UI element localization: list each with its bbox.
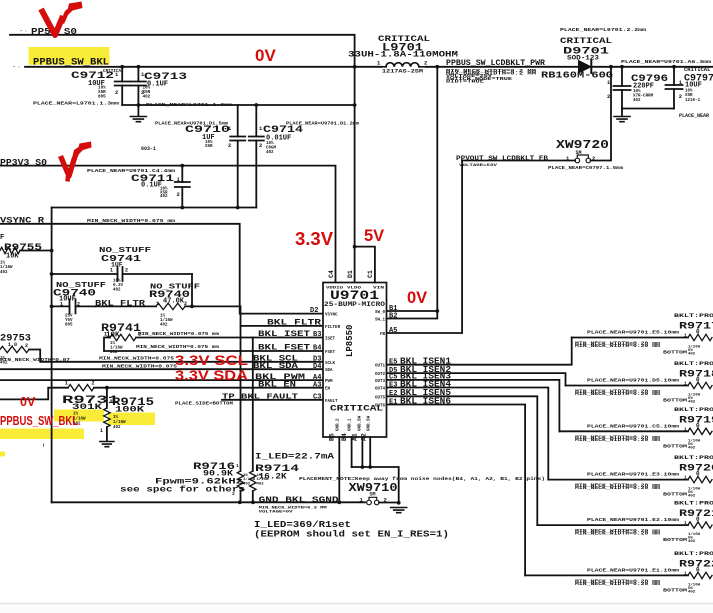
svg-text:402: 402 xyxy=(688,353,696,357)
svg-text:402: 402 xyxy=(257,482,265,486)
svg-text:B4: B4 xyxy=(313,345,321,353)
wire BKL_ISEN4 xyxy=(387,388,549,480)
svg-text:MIN_NECK_WIDTH=0.20 mm: MIN_NECK_WIDTH=0.20 mm xyxy=(575,486,661,491)
svg-text:PLACE_SIDE=BOTTOM: PLACE_SIDE=BOTTOM xyxy=(175,402,234,407)
wire BKL_ISEN5 xyxy=(387,396,538,525)
ground at XW9710 xyxy=(391,508,407,513)
svg-text:1: 1 xyxy=(684,333,687,339)
svg-text:10%: 10% xyxy=(633,90,641,94)
svg-text:RB160M-60G: RB160M-60G xyxy=(541,71,613,81)
svg-text:BKLT:PRO: BKLT:PRO xyxy=(674,455,713,461)
svg-text:402: 402 xyxy=(0,271,8,275)
svg-text:X7R-CRRM: X7R-CRRM xyxy=(633,95,654,99)
svg-text:402: 402 xyxy=(160,195,168,199)
svg-text:PLACE_NEAR=U9701.E1.10mm: PLACE_NEAR=U9701.E1.10mm xyxy=(587,568,680,573)
svg-text:1210-1: 1210-1 xyxy=(685,99,701,103)
svg-text:X5R: X5R xyxy=(205,145,213,149)
svg-text:10%: 10% xyxy=(685,90,693,94)
resistor R9719 xyxy=(559,407,713,451)
node PPVOUT_SW_LCDBKLT_FB xyxy=(456,155,548,168)
svg-text:SOD-123: SOD-123 xyxy=(567,55,599,62)
svg-text:10%: 10% xyxy=(113,280,121,284)
svg-text:BKL_SDA: BKL_SDA xyxy=(253,361,299,371)
decor bottom edge xyxy=(0,604,713,613)
svg-text:GND_SW: GND_SW xyxy=(368,415,372,431)
svg-text:2: 2 xyxy=(424,60,427,67)
wire BKL_ISEN3 xyxy=(387,380,560,431)
annotation checkmark over PP5V_S0 xyxy=(41,2,83,36)
svg-text:1/16W: 1/16W xyxy=(113,420,126,425)
svg-text:CRITICAL: CRITICAL xyxy=(684,66,711,73)
svg-text:CRITICAL: CRITICAL xyxy=(560,37,612,46)
svg-text:BKLT:PRO: BKLT:PRO xyxy=(674,551,713,557)
svg-text:402: 402 xyxy=(688,540,696,544)
wire left bus vertical xyxy=(51,208,53,503)
capacitor C9710 xyxy=(141,105,245,208)
svg-text:PPBUS_SW_BKL: PPBUS_SW_BKL xyxy=(0,414,78,428)
diode D9701 RB160M-60G xyxy=(541,28,647,81)
svg-text:(EEPROM should set EN_I_RES=1): (EEPROM should set EN_I_RES=1) xyxy=(254,530,449,540)
svg-text:402: 402 xyxy=(633,99,641,103)
svg-text:BKLT:PRO: BKLT:PRO xyxy=(674,407,713,413)
wire C9741 to FLTR junction xyxy=(191,274,193,306)
svg-text:BKLT:PRO: BKLT:PRO xyxy=(674,361,713,367)
svg-text:PLACE_NEAR=L9701.1.3mm: PLACE_NEAR=L9701.1.3mm xyxy=(33,102,120,107)
svg-text:PLACE_NEAR=U9701.C5.10mm: PLACE_NEAR=U9701.C5.10mm xyxy=(587,424,680,429)
wire BKL_ISEN1 xyxy=(387,338,572,365)
svg-text:BOTTOM: BOTTOM xyxy=(663,398,687,404)
svg-text:OUT3: OUT3 xyxy=(375,380,386,384)
svg-text:see spec for others: see spec for others xyxy=(120,485,245,495)
svg-text:2: 2 xyxy=(177,191,180,198)
svg-text:25V: 25V xyxy=(65,315,73,319)
svg-text:3.3V SDA: 3.3V SDA xyxy=(175,368,248,383)
svg-text:MIN_NECK_WIDTH=0.20 mm: MIN_NECK_WIDTH=0.20 mm xyxy=(575,392,661,397)
svg-text:805: 805 xyxy=(98,94,106,99)
svg-text:PLACE_NEAR=U9701.E5.10mm: PLACE_NEAR=U9701.E5.10mm xyxy=(587,331,680,336)
svg-text:1217AS-2SM: 1217AS-2SM xyxy=(382,69,423,75)
svg-text:I_LED=369/R1set: I_LED=369/R1set xyxy=(254,520,351,530)
svg-text:MIN_NECK_WIDTH=0.20 mm: MIN_NECK_WIDTH=0.20 mm xyxy=(575,344,661,349)
wire GND pins B4 A1 A2 bus xyxy=(351,437,353,467)
svg-text:PLACEMENT_NOTE=Keep away from: PLACEMENT_NOTE=Keep away from noise node… xyxy=(299,476,545,482)
svg-text:MIN_NECK_WIDTH=0.075 mm: MIN_NECK_WIDTH=0.075 mm xyxy=(138,332,220,337)
svg-text:X5R: X5R xyxy=(685,94,693,98)
svg-text:0.1UF: 0.1UF xyxy=(141,182,162,190)
svg-text:A5: A5 xyxy=(389,327,397,335)
svg-text:1: 1 xyxy=(684,520,687,526)
svg-text:BKL_FSET: BKL_FSET xyxy=(258,343,310,353)
svg-text:BOTTOM: BOTTOM xyxy=(663,350,687,356)
node PP5V_S0 xyxy=(20,26,77,37)
highlight over R9731 tolerance values xyxy=(54,410,104,422)
wire mid rail y207 xyxy=(52,207,257,209)
svg-text:PLACE_NEAR=U9701.E2.10mm: PLACE_NEAR=U9701.E2.10mm xyxy=(587,518,680,523)
svg-text:47.0K: 47.0K xyxy=(163,298,185,306)
capacitor C9713 xyxy=(131,67,233,108)
svg-text:402: 402 xyxy=(243,482,251,486)
capacitor C9712 xyxy=(33,67,130,107)
svg-text:0V: 0V xyxy=(255,46,276,65)
svg-text:FAULT: FAULT xyxy=(325,400,338,404)
svg-text:VOLTAGE=50V: VOLTAGE=50V xyxy=(459,164,498,168)
svg-text:1: 1 xyxy=(100,428,103,434)
capacitor C9797 xyxy=(666,66,713,119)
svg-text:1: 1 xyxy=(684,570,687,576)
resistor R9731 xyxy=(0,381,323,427)
svg-text:SW_1: SW_1 xyxy=(375,319,386,323)
svg-text:1: 1 xyxy=(684,475,687,481)
svg-text:FSET: FSET xyxy=(325,351,336,355)
svg-text:GND_2: GND_2 xyxy=(337,418,341,431)
svg-text:VSYNC: VSYNC xyxy=(325,314,338,318)
svg-text:2: 2 xyxy=(25,343,28,349)
jumper XW9720 xyxy=(548,138,624,171)
wire FB vertical to chip A5 xyxy=(387,161,463,334)
resistor R9717 xyxy=(572,313,713,357)
wire PP3V3_S0 to chip C4 VDDIO xyxy=(0,166,336,283)
capacitor C9714 xyxy=(249,105,360,208)
svg-text:2: 2 xyxy=(679,93,682,100)
ground under C9713 xyxy=(137,105,139,116)
svg-text:B3: B3 xyxy=(313,331,321,339)
wire FLTR drop to FILTER pin and R9716 xyxy=(240,306,242,471)
svg-text:2: 2 xyxy=(607,93,610,100)
wire SW pins to SW node xyxy=(387,310,438,312)
highlight over PPBUS_SW_BKL net label xyxy=(29,47,110,65)
svg-text:10K: 10K xyxy=(6,253,19,261)
capacitor C9796 xyxy=(607,60,712,109)
svg-text:OUT4: OUT4 xyxy=(375,388,386,392)
svg-text:GND_SW: GND_SW xyxy=(359,415,363,431)
svg-text:OUT1: OUT1 xyxy=(375,365,386,369)
svg-text:DIDT=TRUE: DIDT=TRUE xyxy=(446,78,484,84)
wire PPBUS_SW_BKL feed to inductor xyxy=(25,66,382,68)
svg-text:1: 1 xyxy=(110,268,113,274)
svg-text:402: 402 xyxy=(688,401,696,405)
svg-text:PLACE_NEAR=U9701.D5.10mm: PLACE_NEAR=U9701.D5.10mm xyxy=(587,379,680,384)
svg-text:I_LED=22.7mA: I_LED=22.7mA xyxy=(255,453,334,462)
svg-text:!: ! xyxy=(42,443,45,449)
svg-text:1%: 1% xyxy=(160,315,166,319)
resistor R9721 xyxy=(537,501,713,544)
svg-text:LP8550: LP8550 xyxy=(345,325,355,357)
resistor R9714 xyxy=(243,338,334,503)
resistor R9740 NO_STUFF xyxy=(95,284,241,328)
svg-text:2: 2 xyxy=(592,155,595,162)
wire VIN jog C1 xyxy=(355,247,375,283)
jumper XW9710 xyxy=(349,481,399,505)
small yellow tick left edge xyxy=(0,452,5,457)
svg-text:MIN_NECK_WIDTH=0.075: MIN_NECK_WIDTH=0.075 xyxy=(102,365,178,370)
svg-text:2: 2 xyxy=(141,89,144,96)
svg-text:BOTTOM: BOTTOM xyxy=(663,492,687,498)
wire PP5V_S0 to D1 VLDO vertical xyxy=(10,35,355,283)
svg-text:PLACE_NEAR=C9797.1.5mm: PLACE_NEAR=C9797.1.5mm xyxy=(548,166,624,171)
svg-text:FILTER: FILTER xyxy=(325,326,341,330)
svg-text:B4: B4 xyxy=(341,433,348,441)
annotation checkmark over PP3V3_S0 xyxy=(61,142,92,182)
svg-text:D2: D2 xyxy=(310,307,318,315)
svg-text:PPVOUT_SW_LCDBKLT_FB: PPVOUT_SW_LCDBKLT_FB xyxy=(456,155,548,163)
svg-text:2: 2 xyxy=(125,268,128,274)
wire PWM row xyxy=(0,379,323,381)
svg-text:BOTTOM: BOTTOM xyxy=(663,587,687,593)
svg-text:402: 402 xyxy=(688,590,696,594)
svg-text:D4: D4 xyxy=(313,363,321,371)
resistor R9755 xyxy=(0,243,52,275)
svg-text:0V: 0V xyxy=(20,395,36,409)
svg-text:1%: 1% xyxy=(0,262,6,266)
svg-text:B5: B5 xyxy=(329,433,336,441)
svg-text:402: 402 xyxy=(113,289,121,293)
svg-text:BOTTOM: BOTTOM xyxy=(663,443,687,449)
svg-text:301K: 301K xyxy=(72,403,102,412)
svg-text:33UH-1.8A-110MOHM: 33UH-1.8A-110MOHM xyxy=(348,50,458,60)
wire FB net xyxy=(462,160,575,162)
svg-text:10%: 10% xyxy=(266,142,274,146)
svg-text:402: 402 xyxy=(113,426,121,430)
svg-text:2: 2 xyxy=(228,142,231,149)
svg-text:C0GM: C0GM xyxy=(266,147,277,151)
capacitor C9740 NO_STUFF xyxy=(52,282,107,328)
svg-text:PPBUS_SW_LCDBKLT_PWR: PPBUS_SW_LCDBKLT_PWR xyxy=(446,58,546,68)
op-amp U9701 LP8550 backlight driver xyxy=(323,283,387,438)
svg-text:1%: 1% xyxy=(110,342,116,346)
ground under R9715 xyxy=(100,442,114,447)
wire SW node to diode xyxy=(426,66,578,68)
resistor R9716 xyxy=(193,461,244,502)
svg-text:805: 805 xyxy=(65,324,73,328)
svg-text:C1: C1 xyxy=(367,270,374,278)
resistor R9720 xyxy=(548,455,713,499)
svg-text:1: 1 xyxy=(684,381,687,387)
svg-text:402: 402 xyxy=(160,324,168,328)
svg-text:OUT2: OUT2 xyxy=(375,373,386,377)
svg-text:1: 1 xyxy=(236,463,239,469)
svg-text:BKLT:PRO: BKLT:PRO xyxy=(674,501,713,507)
svg-text:PLACE_NEAR=L9701.2.2mm: PLACE_NEAR=L9701.2.2mm xyxy=(560,28,647,33)
wire SDA row xyxy=(0,368,323,370)
svg-text:1: 1 xyxy=(65,381,68,387)
svg-text:3.3V SCL: 3.3V SCL xyxy=(175,353,248,368)
resistor R9722 xyxy=(525,551,713,595)
svg-text:BKL_FLTR: BKL_FLTR xyxy=(267,318,322,328)
svg-text:BKL_EN: BKL_EN xyxy=(258,380,296,390)
svg-text:SM: SM xyxy=(370,492,376,498)
capacitor C9741 NO_STUFF xyxy=(52,247,192,293)
node PPBUS_SW_BKL xyxy=(13,57,109,70)
wire FAULT row xyxy=(222,399,323,401)
wire GND_BKL_SGND rail xyxy=(52,501,365,503)
wire cap bottoms rail xyxy=(622,108,674,110)
svg-text:1: 1 xyxy=(684,426,687,432)
svg-text:FB: FB xyxy=(380,333,386,337)
svg-text:PWM: PWM xyxy=(325,380,333,384)
svg-text:~ :: ~ : xyxy=(13,66,20,70)
svg-text:OUT5: OUT5 xyxy=(375,396,386,400)
svg-text:6.3V: 6.3V xyxy=(113,284,124,288)
highlight bar under PPBUS_SW_BKL annotation xyxy=(0,429,84,440)
svg-text:10UF: 10UF xyxy=(685,82,702,90)
svg-text:EN: EN xyxy=(325,388,331,392)
resistor R9715 xyxy=(100,386,154,441)
svg-text:Y5V: Y5V xyxy=(65,319,73,323)
svg-text:5V: 5V xyxy=(364,227,384,245)
svg-text:SDA: SDA xyxy=(325,369,333,373)
wire BKL_ISEN6 xyxy=(387,405,526,576)
node PPBUS_SW_LCDBKLT_PWR xyxy=(446,58,546,85)
svg-text:MIN_NECK_WIDTH=0.075: MIN_NECK_WIDTH=0.075 xyxy=(99,357,175,362)
svg-text:D1: D1 xyxy=(347,270,354,278)
wire bypass rail y105 xyxy=(122,104,354,106)
wire output to XW9720 vertical xyxy=(591,67,611,161)
svg-text:OUT6: OUT6 xyxy=(375,405,386,409)
svg-text:100K: 100K xyxy=(115,406,144,415)
svg-text:MIN_NECK_WIDTH=0.07: MIN_NECK_WIDTH=0.07 xyxy=(0,358,71,363)
svg-text:MIN_NECK_WIDTH=0.20 mm: MIN_NECK_WIDTH=0.20 mm xyxy=(575,438,661,443)
svg-text:C4: C4 xyxy=(328,270,335,278)
svg-text:603-1: 603-1 xyxy=(141,146,156,152)
resistor R9741 xyxy=(101,323,323,355)
svg-text:3.3V: 3.3V xyxy=(295,228,334,249)
svg-text:402: 402 xyxy=(688,446,696,450)
svg-text:1%: 1% xyxy=(113,416,119,420)
svg-text:GND_BKL_SGND: GND_BKL_SGND xyxy=(259,495,339,505)
wire FILTER pin xyxy=(241,325,324,327)
wire diode cathode to output net xyxy=(591,66,713,68)
svg-text:PLACE_NEAR=U9701.A6.3mm: PLACE_NEAR=U9701.A6.3mm xyxy=(621,60,712,65)
svg-text:A3: A3 xyxy=(313,382,321,390)
svg-text:402: 402 xyxy=(266,151,274,155)
svg-text:1/16W: 1/16W xyxy=(0,265,13,270)
svg-text:1/16W: 1/16W xyxy=(160,318,173,323)
inductor L9701 33UH-1.8A-110MOHM xyxy=(348,35,458,75)
wire FSET row xyxy=(104,350,323,352)
svg-text:402: 402 xyxy=(688,495,696,499)
resistor R9753 xyxy=(0,334,323,366)
svg-text:MIN_NECK_WIDTH=0.20 mm: MIN_NECK_WIDTH=0.20 mm xyxy=(575,582,661,587)
svg-text:2: 2 xyxy=(92,381,95,387)
highlight over R9715 tolerance values xyxy=(108,413,155,426)
svg-text:PLACE_NEAR=U9701.E3.10mm: PLACE_NEAR=U9701.E3.10mm xyxy=(587,473,680,478)
capacitor C9711 xyxy=(87,166,190,208)
wire GND pin B5 xyxy=(338,437,340,502)
svg-text:0V: 0V xyxy=(407,289,427,307)
svg-text:GND_1: GND_1 xyxy=(349,418,353,431)
svg-text:VOLTAGE=0V: VOLTAGE=0V xyxy=(259,511,294,515)
svg-text:BKLT:PRO: BKLT:PRO xyxy=(674,313,713,319)
svg-text:F: F xyxy=(0,234,4,242)
svg-text:MIN_NECK_WIDTH=0.075 mm: MIN_NECK_WIDTH=0.075 mm xyxy=(136,345,220,350)
svg-text:SCLK: SCLK xyxy=(325,362,336,366)
svg-text:A1: A1 xyxy=(352,433,359,441)
svg-text:2: 2 xyxy=(115,89,118,96)
svg-text:PLACE_NEAR: PLACE_NEAR xyxy=(679,113,709,119)
resistor R9718 xyxy=(566,361,713,405)
svg-text:MIN_NECK_WIDTH=0.20 mm: MIN_NECK_WIDTH=0.20 mm xyxy=(575,532,661,537)
svg-text:XW9720: XW9720 xyxy=(556,138,609,152)
ground under C9796 xyxy=(621,109,623,117)
svg-text:ISET: ISET xyxy=(325,338,336,342)
svg-text:1/16W: 1/16W xyxy=(110,345,123,350)
wire BKL_ISEN2 xyxy=(387,373,566,385)
wire VSYNC to chip D2 xyxy=(0,224,323,314)
svg-text:BOTTOM: BOTTOM xyxy=(663,537,687,543)
svg-text:BKL_ISET: BKL_ISET xyxy=(258,329,310,339)
svg-text:25-BUMP-MICRO: 25-BUMP-MICRO xyxy=(324,301,385,308)
svg-text:SW_0: SW_0 xyxy=(375,311,386,315)
svg-text:2: 2 xyxy=(259,142,262,149)
svg-text:~ :: ~ : xyxy=(20,30,27,34)
